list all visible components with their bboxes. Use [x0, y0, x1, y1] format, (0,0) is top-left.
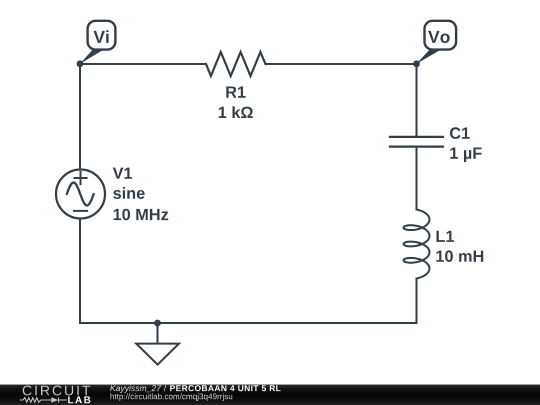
junction dot at node Vi	[77, 60, 84, 67]
label V1 refdes	[113, 168, 132, 179]
wire top right: R1 to Vo node	[266, 63, 417, 65]
label V1 value 10 MHz	[114, 209, 169, 221]
node flag Vi (pointer tail)	[80, 49, 104, 64]
wire left lower: V1 down to bottom rail	[79, 219, 81, 324]
label R1 value 1 kOhm	[219, 106, 253, 118]
wire right upper: Vo node down to C1	[416, 64, 418, 136]
label C1 refdes	[450, 127, 470, 139]
capacitor C1 plates	[390, 137, 443, 147]
footer credit line 1: username and title	[110, 385, 280, 393]
label L1 refdes	[437, 231, 455, 242]
wire left upper: Vi node down to V1	[79, 64, 81, 170]
node flag Vo (pointer tail)	[417, 49, 442, 64]
node flag Vi label text	[94, 30, 109, 43]
inductor L1 coil	[404, 210, 430, 279]
node flag Vo label text	[428, 31, 450, 43]
junction dot at ground node	[154, 320, 161, 327]
node flag Vi (rounded box)	[88, 21, 116, 50]
junction dot at node Vo	[413, 60, 420, 67]
wire top left: Vi node to R1	[80, 63, 206, 65]
footer logo CIRCUIT wordmark	[23, 386, 91, 396]
footer bar background	[0, 385, 540, 405]
wire bottom rail	[80, 322, 417, 324]
label L1 value 10 mH	[436, 250, 483, 262]
resistor R1	[206, 52, 266, 76]
wire right middle: C1 to L1	[416, 148, 418, 210]
footer logo resistor-diode symbol line	[20, 398, 67, 403]
label C1 value 1 uF	[450, 148, 481, 163]
label V1 type sine	[113, 187, 145, 199]
footer logo LAB text	[68, 396, 90, 403]
footer credit line 2: url	[111, 393, 233, 401]
ground symbol	[136, 323, 179, 365]
node flag Vo (rounded box)	[425, 21, 457, 50]
wire right lower: L1 to bottom rail	[416, 279, 418, 324]
voltage source V1 (circle with sine, + and - marks)	[56, 170, 105, 219]
footer logo diode triangle	[51, 397, 58, 402]
label R1 refdes	[226, 87, 245, 98]
